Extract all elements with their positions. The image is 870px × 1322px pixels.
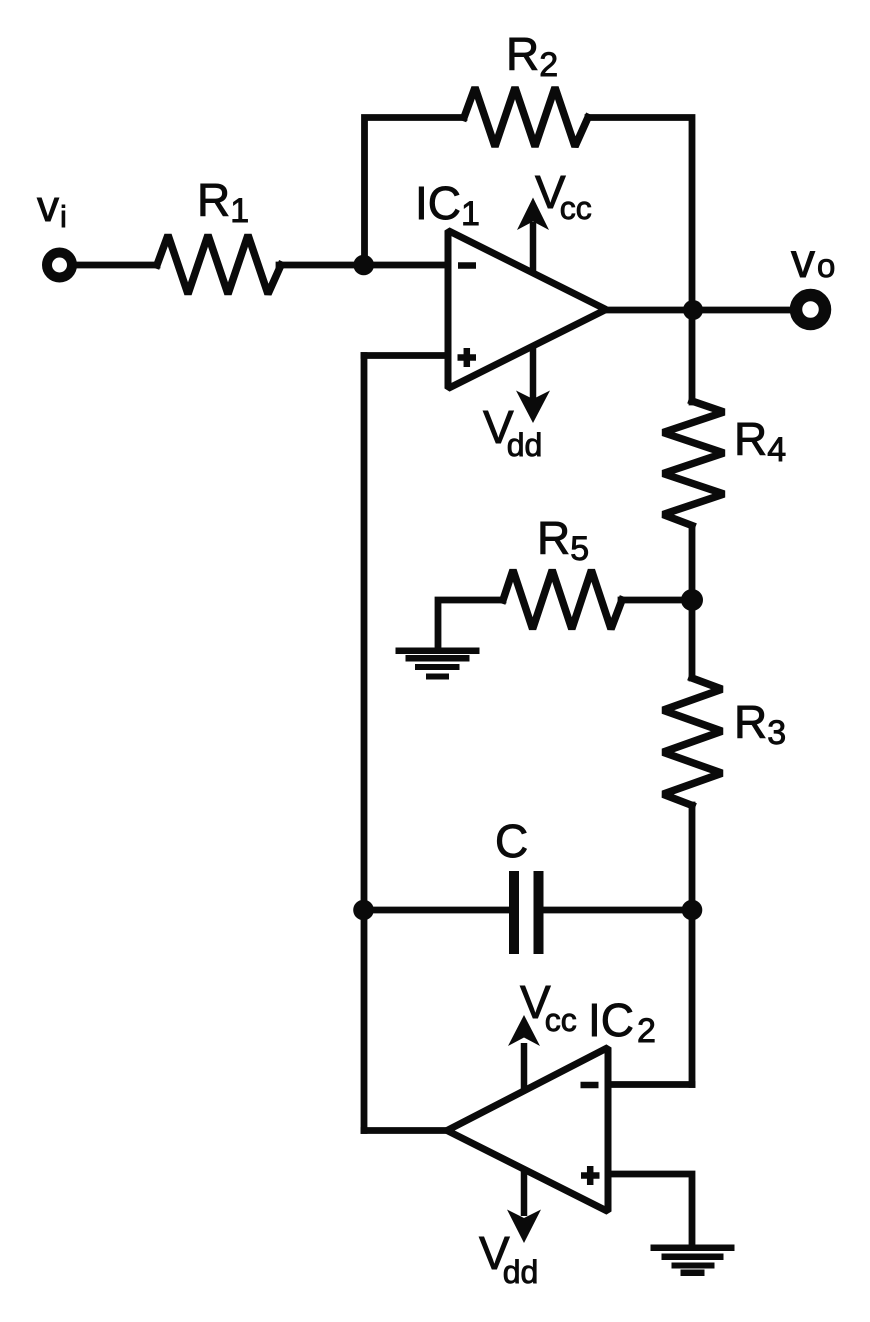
op-amp IC1 inverting pin minus sign [458, 262, 476, 269]
capacitor C [514, 871, 539, 954]
resistor R5 [503, 570, 622, 629]
wire capacitor right [543, 907, 692, 914]
wire IC1 output to vo [604, 307, 794, 314]
power Vdd arrow on IC2 [507, 1169, 541, 1243]
power Vcc arrow on IC2 [508, 1015, 540, 1090]
svg-text:Vdd: Vdd [479, 1227, 538, 1290]
node junction at R1 and IC1 inverting input [353, 255, 374, 276]
node junction capacitor right [682, 900, 703, 921]
ground symbol at IC2 non-inverting input [651, 1245, 735, 1277]
wire input from vi to R1 [76, 262, 157, 269]
resistor R3 [663, 678, 722, 805]
svg-text:R3: R3 [734, 696, 786, 752]
op-amp IC1 non-inverting pin plus sign [458, 348, 477, 367]
wire IC2 non-inverting input to ground [606, 1174, 692, 1245]
node junction at IC1 output [683, 300, 703, 320]
svg-text:R4: R4 [734, 413, 786, 469]
op-amp IC2 non-inverting pin plus sign [581, 1166, 600, 1185]
resistor R4 [663, 401, 724, 526]
resistor R2 [464, 88, 588, 147]
power Vdd arrow on IC1 [516, 347, 550, 423]
resistor R1 [157, 235, 281, 294]
wire between R4 and R3 [689, 527, 696, 678]
ground symbol near R5 [396, 648, 480, 680]
wire top feedback rail left segment [365, 118, 465, 266]
op-amp IC2 inverting pin minus sign [581, 1082, 599, 1089]
op-amp U2 IC2 [447, 1048, 608, 1212]
terminal vi [47, 253, 72, 278]
node junction capacitor left [353, 900, 374, 921]
power Vcc arrow on IC1 [517, 198, 549, 273]
svg-text:C: C [495, 815, 528, 867]
wire left vertical rail [361, 356, 368, 1131]
wire capacitor left [364, 907, 509, 914]
svg-text:vi: vi [37, 182, 67, 234]
svg-text:R5: R5 [537, 512, 589, 568]
wire R1 to inverting input of IC1 [279, 262, 450, 269]
svg-text:Vcc: Vcc [535, 166, 592, 226]
svg-text:vo: vo [791, 235, 835, 288]
svg-text:R2: R2 [506, 28, 558, 84]
wire non-inverting input of IC1 to left rail [364, 352, 450, 359]
wire top feedback rail right segment [588, 118, 692, 403]
svg-text:R1: R1 [197, 174, 249, 230]
svg-text:IC1: IC1 [415, 177, 480, 233]
wire ground to R5 [438, 600, 503, 648]
wire R3 down to capacitor node and IC2 inverting input [689, 805, 696, 1085]
terminal vo [796, 295, 825, 324]
wire IC2 output to left rail [364, 1127, 452, 1134]
svg-text:IC2: IC2 [588, 994, 656, 1050]
wire IC2 inverting input [606, 1081, 692, 1088]
node junction between R4 R5 R3 [681, 589, 703, 611]
wire R5 to node [621, 597, 692, 604]
op-amp U1 IC1 [448, 231, 606, 389]
